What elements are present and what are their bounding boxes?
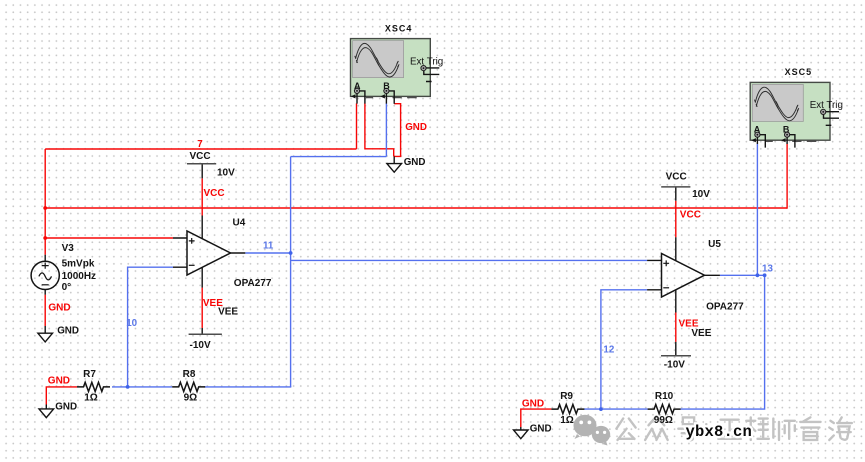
wire node7 vertical at left edge: [44, 149, 46, 255]
resistor R8: [172, 382, 205, 391]
svg-text:-10V: -10V: [664, 360, 685, 371]
ground (R7): [39, 405, 54, 418]
svg-text:R9: R9: [560, 391, 573, 402]
source V3: [31, 255, 59, 295]
pin Ext Trig (XSC4): [421, 66, 439, 82]
svg-text:B: B: [383, 81, 390, 91]
svg-text:1000Hz: 1000Hz: [62, 271, 96, 282]
wire node7 top horizontal to XSC4 A: [45, 148, 356, 150]
svg-text:1Ω: 1Ω: [84, 392, 98, 403]
svg-text:GND: GND: [522, 398, 544, 409]
wire U5 output node 13: [720, 274, 765, 276]
svg-text:V3: V3: [62, 243, 75, 254]
wire R7 to junction: [112, 386, 172, 388]
watermark text 公众号：工程师看海: [616, 416, 851, 440]
wire U4 VEE red segment: [201, 288, 203, 328]
svg-text:VCC: VCC: [666, 171, 687, 182]
svg-text:GND: GND: [48, 302, 70, 313]
svg-text:10V: 10V: [217, 168, 235, 179]
svg-text:R7: R7: [83, 369, 96, 380]
wire XSC4 B drop: [385, 103, 387, 156]
wire XSC5 B drop: [786, 144, 788, 209]
svg-text:12: 12: [603, 345, 614, 356]
svg-text:R8: R8: [183, 369, 196, 380]
junction node11 dot: [289, 251, 293, 255]
wire XSC4 B horizontal: [291, 156, 387, 158]
svg-text:VCC: VCC: [190, 151, 211, 162]
svg-text:XSC5: XSC5: [785, 67, 813, 77]
svg-text:GND: GND: [530, 423, 552, 434]
svg-text:99Ω: 99Ω: [654, 415, 673, 426]
wire node7 lower horizontal to XSC5 B: [45, 207, 787, 209]
svg-text:B: B: [783, 125, 790, 135]
oscilloscope U-XSC4 body: [351, 39, 431, 98]
power symbol VEE -10V (U4): [189, 333, 222, 335]
resistor R7: [77, 382, 110, 391]
junction node7/V3 lower dot: [43, 236, 47, 240]
svg-text:11: 11: [263, 241, 274, 252]
svg-text:A: A: [354, 81, 361, 91]
resistor R9: [551, 405, 584, 414]
svg-text:1Ω: 1Ω: [560, 415, 574, 426]
svg-text:U5: U5: [708, 239, 721, 250]
svg-text:-10V: -10V: [190, 340, 211, 351]
pin B (XSC4): [380, 88, 394, 104]
pin B (XSC5): [781, 132, 795, 148]
junction node7/V3 upper dot: [43, 206, 47, 210]
svg-text:XSC4: XSC4: [385, 23, 413, 33]
svg-text:7: 7: [197, 139, 203, 150]
op-amp U5: [647, 187, 720, 356]
junction node13 dot a: [756, 273, 760, 277]
pin A (XSC4): [351, 88, 365, 103]
power symbol VCC (U4): [187, 163, 216, 165]
svg-text:10: 10: [126, 318, 137, 329]
wire R7 gnd stub: [46, 387, 77, 405]
svg-text:GND: GND: [48, 376, 70, 387]
svg-text:OPA277: OPA277: [706, 302, 744, 313]
svg-text:9Ω: 9Ω: [184, 392, 198, 403]
wire U4 output node 11: [245, 252, 290, 254]
wire U5 minus node 12: [601, 290, 647, 409]
wire node11 vertical: [290, 157, 292, 387]
power symbol VEE -10V (U5): [661, 355, 691, 357]
wire XSC5 A drop: [756, 144, 758, 275]
watermark wechat icon: [574, 415, 611, 446]
svg-text:A: A: [754, 125, 761, 135]
wire node7 to U4 plus input: [45, 237, 173, 239]
svg-text:VEE: VEE: [691, 328, 711, 339]
wire R9 to junction: [584, 408, 648, 410]
svg-text:10V: 10V: [692, 189, 710, 200]
wire node11 to U5 plus long run: [291, 259, 647, 261]
pin A (XSC5): [751, 132, 765, 148]
svg-text:VEE: VEE: [203, 298, 223, 309]
power symbol VCC (U5): [661, 186, 690, 188]
svg-text:GND: GND: [405, 122, 427, 133]
wire XSC4 A- to gnd: [365, 103, 394, 156]
svg-text:OPA277: OPA277: [234, 278, 272, 289]
wire R9 gnd stub: [521, 409, 552, 427]
svg-text:U4: U4: [233, 218, 246, 229]
wire XSC4 B- to gnd: [394, 104, 401, 157]
wire U4 VCC red segment: [201, 178, 203, 215]
svg-text:0°: 0°: [62, 282, 72, 293]
junction node10/R7R8 dot: [126, 385, 130, 389]
ground (XSC4): [387, 156, 402, 172]
wire U4 minus node 10: [128, 267, 173, 387]
svg-text:Ext Trig: Ext Trig: [810, 100, 843, 111]
svg-text:R10: R10: [655, 391, 674, 402]
svg-text:GND: GND: [55, 402, 77, 413]
wire U5 VCC red segment: [675, 201, 677, 238]
svg-text:13: 13: [762, 264, 773, 275]
resistor R10: [648, 405, 681, 414]
wire XSC4 A+ drop: [356, 103, 358, 149]
wire R10 to node13 vertical: [680, 275, 764, 409]
wire U5 VEE red segment: [675, 313, 677, 342]
wire R8 to node11 vertical: [205, 385, 291, 388]
svg-text:VCC: VCC: [204, 188, 225, 199]
svg-text:Ext Trig: Ext Trig: [410, 56, 443, 67]
oscilloscope U-XSC5 body: [750, 82, 830, 141]
svg-text:VCC: VCC: [680, 210, 701, 221]
svg-text:ybx8.cn: ybx8.cn: [686, 423, 753, 441]
junction node13 dot b: [763, 273, 767, 277]
junction node12/R9R10 dot: [599, 407, 603, 411]
svg-text:VEE: VEE: [679, 318, 699, 329]
ground (V3): [38, 326, 53, 342]
pin Ext Trig (XSC5): [821, 109, 839, 125]
op-amp U4: [173, 164, 245, 334]
svg-text:GND: GND: [57, 326, 79, 337]
ground (R9): [514, 427, 529, 439]
wire V3 bottom to gnd: [44, 295, 46, 326]
svg-text:5mVpk: 5mVpk: [62, 258, 95, 269]
svg-text:GND: GND: [404, 157, 426, 168]
